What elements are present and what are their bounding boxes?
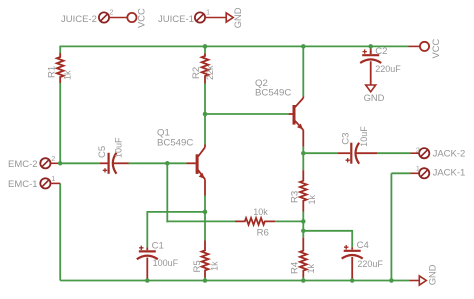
resistor R3: [290, 170, 317, 211]
transistor Q2: [255, 78, 303, 147]
node C4 bottom: [350, 278, 355, 283]
node Q2 collector top: [301, 44, 306, 49]
svg-text:C2: C2: [375, 46, 387, 57]
wire R6 to R3 node: [275, 220, 303, 222]
wire R2 top: [204, 46, 206, 53]
connector JACK-1: [411, 164, 466, 179]
node Q1 base branch: [165, 161, 170, 166]
vcc symbol right: [420, 38, 441, 58]
svg-text:BC549C: BC549C: [157, 138, 193, 149]
wire Q2 emitter down: [302, 147, 304, 154]
ground symbol below C2: [364, 85, 385, 103]
ground symbol bottom right: [419, 264, 437, 285]
ground wire bottom right: [410, 280, 420, 282]
wire R1 top lead-in: [59, 46, 61, 53]
svg-text:GND: GND: [426, 264, 437, 285]
wire emitter node to C1: [147, 211, 205, 247]
ground symbol top: [226, 7, 243, 28]
wire EMC-2 node to C5: [60, 162, 100, 164]
svg-text:22k: 22k: [205, 65, 215, 80]
svg-text:2: 2: [416, 146, 420, 155]
wire R2 bottom: [204, 84, 206, 115]
wire VCC top rail: [60, 45, 408, 47]
wire node to C3: [303, 152, 338, 154]
wire R4 bottom: [302, 278, 304, 281]
wire R2 node to Q2 base: [205, 113, 289, 115]
wire R4 top: [302, 231, 304, 238]
svg-text:JACK-1: JACK-1: [433, 168, 466, 179]
resistor R1: [47, 53, 73, 83]
svg-text:1: 1: [206, 7, 210, 16]
svg-text:100uF: 100uF: [153, 258, 179, 268]
connector EMC-1: [8, 174, 60, 190]
svg-text:GND: GND: [364, 92, 385, 103]
wire R1 to EMC-2 node: [59, 83, 61, 163]
wire C5 to Q1 base node: [129, 162, 187, 164]
node Q1 emitter: [203, 210, 208, 215]
node R6-R3: [301, 219, 306, 224]
capacitor C4: [342, 240, 384, 280]
svg-text:EMC-1: EMC-1: [8, 179, 38, 190]
capacitor C1: [137, 241, 179, 280]
capacitor C2: [360, 46, 401, 85]
node R2 bottom: [203, 112, 208, 117]
svg-text:R2: R2: [191, 67, 202, 79]
node Q2 emitter: [301, 151, 306, 156]
wire C4 bottom: [351, 280, 353, 281]
wire JACK-1 horizontal: [391, 172, 410, 174]
resistor R6: [235, 207, 275, 238]
node R4 bottom: [301, 278, 306, 283]
svg-text:10uF: 10uF: [359, 126, 369, 147]
wire EMC-1 down: [59, 183, 61, 280]
svg-text:C1: C1: [152, 241, 164, 252]
svg-text:GND: GND: [232, 7, 243, 28]
vcc symbol top: [127, 8, 146, 28]
node R5 bottom: [203, 278, 208, 283]
node R2 top: [203, 44, 208, 49]
connector EMC-2: [8, 154, 60, 170]
svg-text:EMC-2: EMC-2: [8, 159, 38, 170]
svg-text:220uF: 220uF: [357, 259, 383, 269]
wire R3 node down: [302, 221, 304, 230]
resistor R4: [289, 238, 316, 278]
svg-text:R6: R6: [257, 227, 269, 238]
capacitor C5: [97, 137, 129, 174]
svg-text:1k: 1k: [210, 261, 220, 271]
transistor Q1: [157, 128, 205, 196]
wire Q2 collector up: [302, 46, 304, 96]
connector JUICE-2: [61, 7, 127, 25]
svg-text:C4: C4: [357, 240, 370, 251]
wire Q1 emitter down: [204, 196, 206, 212]
wire R5 bottom: [204, 278, 206, 281]
node EMC-2: [58, 161, 63, 166]
connector JACK-2: [411, 146, 466, 160]
wire R3 top lead-in: [302, 153, 304, 170]
wire base node down: [166, 163, 168, 222]
svg-text:1k: 1k: [307, 194, 317, 204]
svg-text:BC549C: BC549C: [255, 88, 291, 99]
svg-text:JACK-2: JACK-2: [433, 149, 466, 160]
svg-text:JUICE-2: JUICE-2: [61, 14, 97, 25]
svg-text:R4: R4: [289, 261, 300, 274]
wire emitter node to R5: [204, 212, 206, 241]
vcc wire right: [409, 45, 420, 47]
svg-text:JUICE-1: JUICE-1: [158, 14, 194, 25]
wire C3 to JACK-2: [377, 152, 411, 154]
svg-text:C5: C5: [97, 146, 108, 158]
wire C1 bottom: [146, 279, 148, 281]
svg-text:C3: C3: [340, 133, 351, 145]
node R4 top: [301, 229, 306, 234]
svg-text:10k: 10k: [253, 207, 268, 217]
wire R3 bottom: [302, 212, 304, 222]
connector JUICE-1: [158, 7, 226, 25]
svg-text:1k: 1k: [62, 70, 72, 80]
svg-text:2: 2: [109, 7, 113, 16]
wire Q1 collector up to R2: [204, 114, 206, 145]
svg-text:10uF: 10uF: [113, 137, 123, 158]
node C1 bottom: [145, 278, 150, 283]
wire JACK-1 down: [390, 173, 392, 280]
svg-text:1: 1: [51, 174, 55, 183]
resistor R5: [192, 241, 220, 278]
resistor R2: [191, 53, 215, 83]
wire C2 rail stub: [370, 46, 372, 54]
wire node to C4: [303, 230, 352, 247]
svg-text:VCC: VCC: [135, 8, 146, 28]
node C2 top: [368, 44, 373, 49]
svg-text:R3: R3: [290, 191, 301, 203]
svg-text:2: 2: [51, 154, 55, 163]
wire GND bottom rail: [60, 280, 409, 282]
svg-text:1k: 1k: [306, 263, 316, 273]
svg-text:VCC: VCC: [430, 38, 441, 58]
svg-text:220uF: 220uF: [375, 64, 401, 74]
svg-text:R1: R1: [47, 66, 58, 78]
capacitor C3: [338, 126, 377, 164]
node JACK-1 bottom: [389, 278, 394, 283]
wire base branch to R6: [166, 220, 235, 222]
svg-text:1: 1: [416, 164, 420, 173]
svg-text:R5: R5: [192, 260, 203, 272]
